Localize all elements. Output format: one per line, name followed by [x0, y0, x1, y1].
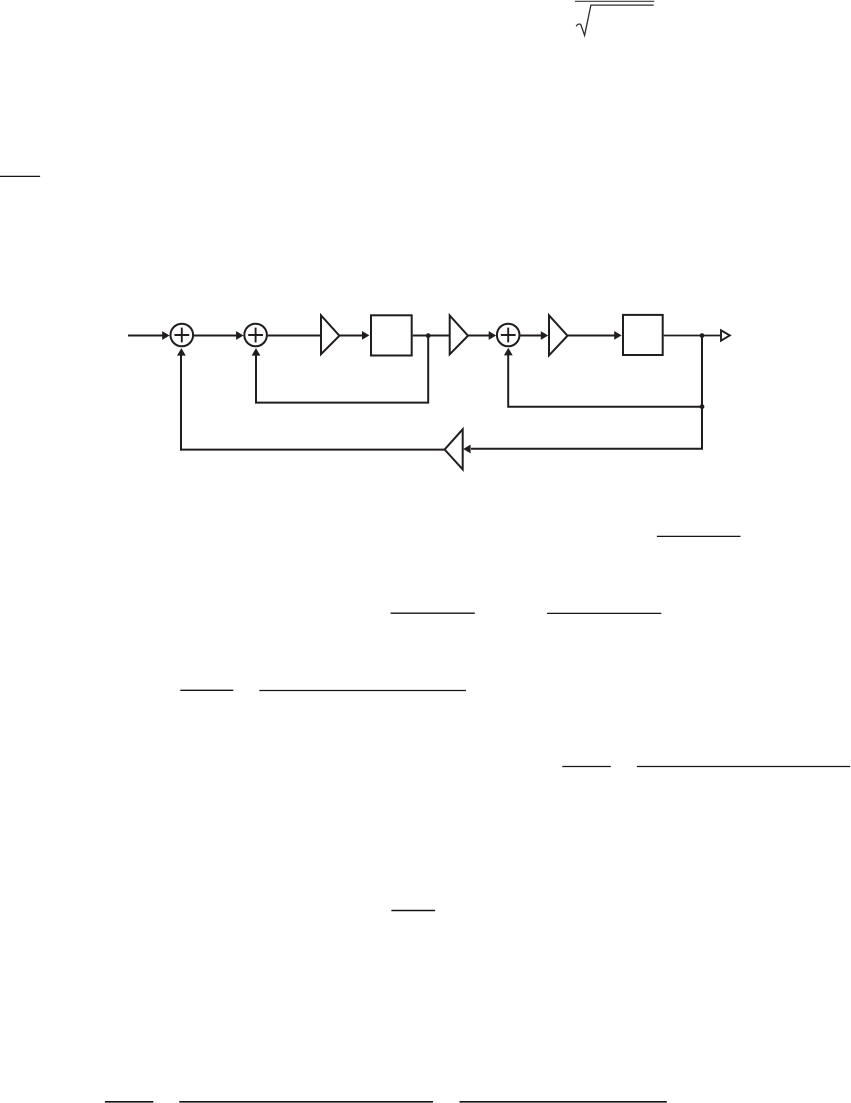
arrowhead: input into summer 1	[162, 331, 169, 340]
node A dot (after box 1)	[426, 333, 431, 338]
summer 1 (circle with plus)	[171, 324, 194, 347]
gain triangle 2	[450, 316, 468, 355]
fraction bar (equation row 1)	[657, 535, 741, 537]
wire: gain3 to delay box 2	[568, 335, 615, 337]
summer 3 (circle with plus)	[497, 324, 520, 347]
fraction bar (equation row 5)	[391, 910, 435, 912]
global feedback: node C down and left to inverting gain	[471, 407, 702, 449]
arrowhead: into summer 3	[489, 331, 496, 340]
feedback path stage1: node A down, left, up into summer 2	[256, 336, 428, 403]
summer 2 (circle with plus)	[244, 324, 267, 347]
feedback path stage2: node B down, left, up into summer 3	[508, 336, 702, 407]
delay box 1	[371, 315, 412, 355]
fraction bar (equation row 4, short)	[562, 766, 611, 768]
gain triangle 1	[321, 315, 339, 354]
square root radical with vinculum	[576, 5, 654, 35]
fraction bar (bottom row, right)	[460, 1101, 667, 1103]
node B dot (output)	[700, 333, 705, 338]
fraction bar (equation row 2, left)	[391, 612, 475, 614]
fraction bar (bottom row, short)	[105, 1101, 153, 1103]
delay box 2	[623, 315, 663, 355]
arrowhead: global feedback up into summer 1	[177, 348, 186, 356]
wire: summer3 to gain triangle 3	[520, 335, 542, 337]
gain triangle 3	[549, 315, 568, 355]
arrowhead: into summer 2	[236, 331, 243, 340]
wire: inverting gain output left	[180, 449, 445, 451]
arrowhead: into inverting gain (pointing left)	[463, 445, 470, 454]
arrowhead: into delay box 2	[614, 331, 621, 340]
wire: gain2 to summer3	[468, 335, 490, 337]
wire: box2 to output arrow (through node B)	[664, 335, 722, 337]
fraction bar (left margin rule, clipped by page edge)	[0, 175, 40, 177]
fraction bar (equation row 3, short)	[180, 689, 233, 691]
inverting gain triangle (left pointing)	[445, 429, 463, 469]
wire: summer1 to summer2	[194, 335, 237, 337]
output arrowhead (open)	[721, 330, 730, 340]
arrowhead: into gain triangle 3	[541, 331, 548, 340]
node C dot (feedback junction)	[700, 404, 705, 409]
arrowhead: feedback1 up into summer 2	[252, 348, 261, 356]
arrowhead: feedback2 up into summer 3	[504, 348, 513, 356]
fraction bar (bottom row, middle)	[179, 1101, 433, 1103]
wire: global feedback rise into summer 1	[180, 355, 182, 450]
fraction bar (equation row 2, right)	[547, 612, 661, 614]
wire: box1 to gain triangle 2 (through node A)	[413, 335, 450, 337]
arrowhead: into delay box 1	[362, 331, 369, 340]
fraction bar (equation row 3, long)	[259, 690, 466, 692]
wire: summer2 to gain triangle 1	[268, 335, 321, 337]
wire: input line	[128, 335, 163, 337]
wire: gain1 to delay box 1	[339, 335, 363, 337]
fraction bar (top formula numerator rule)	[575, 0, 654, 2]
fraction bar (equation row 4, long, runs to page edge)	[637, 766, 850, 768]
